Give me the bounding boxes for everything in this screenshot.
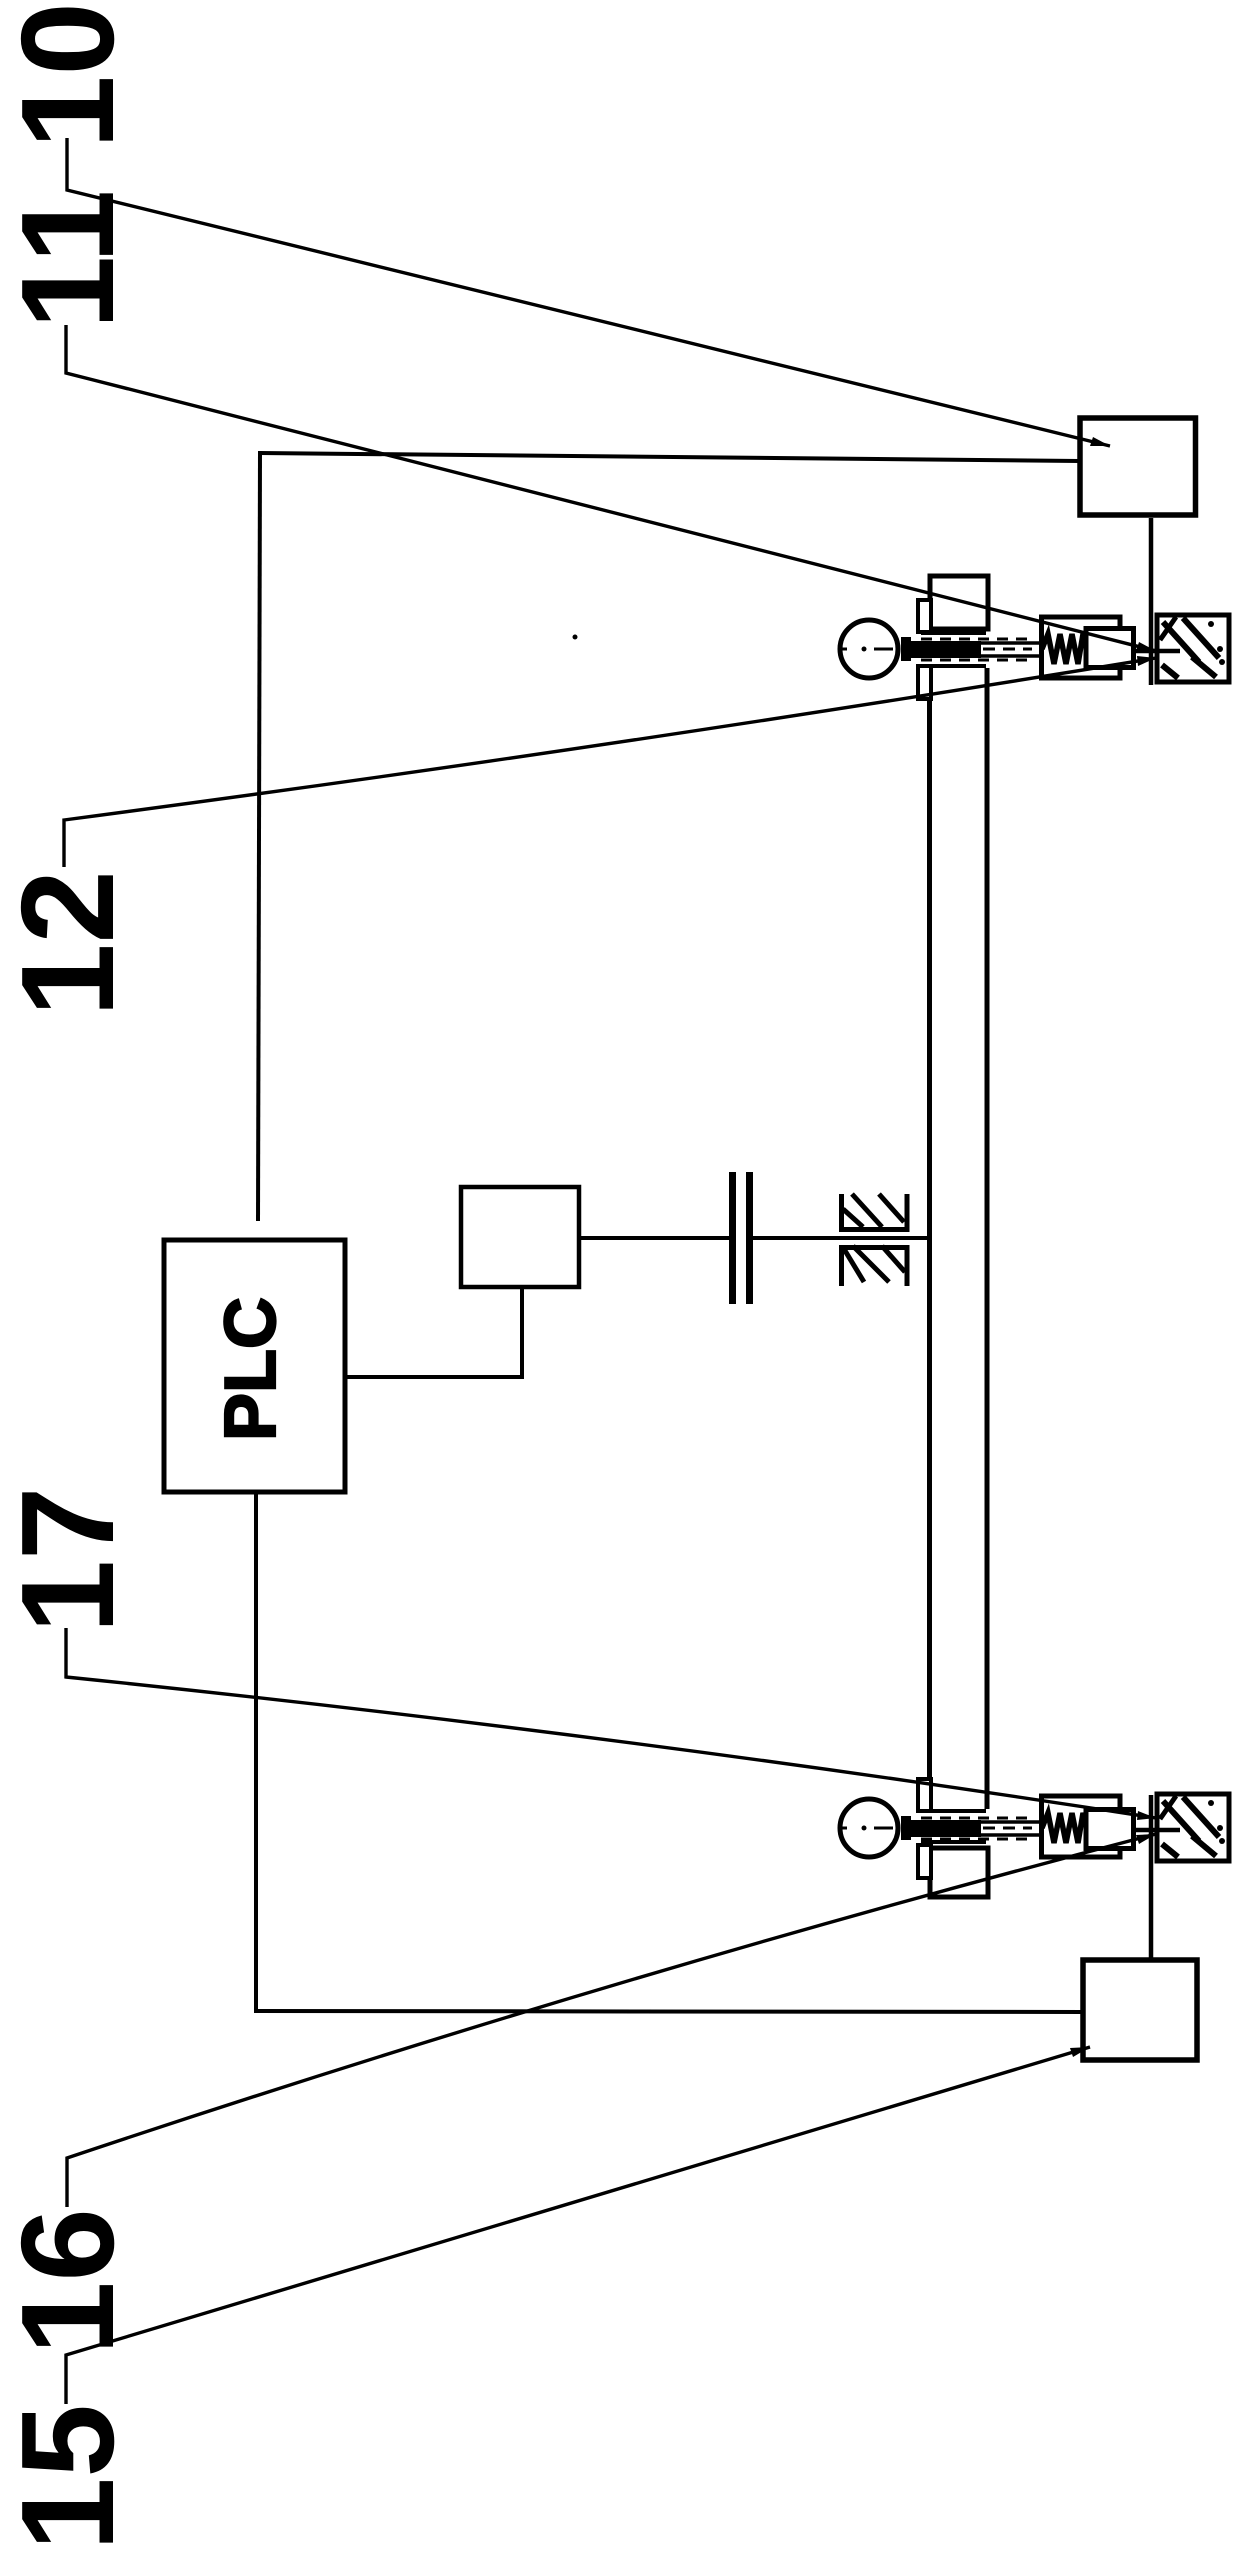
nut housing bottom line top <box>921 664 986 668</box>
plunger rod top <box>1133 649 1180 654</box>
arrowhead 16 <box>1136 1834 1156 1844</box>
svg-text:15: 15 <box>0 2404 141 2551</box>
platform lower cap box <box>930 1848 988 1897</box>
anchor wall hatched block bottom <box>1157 1794 1229 1861</box>
frame top edge <box>260 453 1079 461</box>
spring housing bottom <box>1042 1796 1121 1857</box>
handwheel center mark bottom <box>838 1827 847 1830</box>
frame left edge lower segment <box>254 1494 258 2013</box>
spring top <box>1042 634 1087 664</box>
capacitor sensor plate 1 <box>729 1172 736 1304</box>
guide flange lower plate bottom <box>918 1845 931 1878</box>
plunger rod bottom <box>1133 1828 1180 1833</box>
leader line 17 <box>66 1628 1156 1818</box>
platform right bar <box>985 668 990 1809</box>
svg-text:12: 12 <box>0 870 141 1017</box>
thread root dashed line upper top <box>921 638 1028 641</box>
spring housing top <box>1042 617 1121 678</box>
nut housing top line top <box>921 631 986 635</box>
plunger block bottom <box>1086 1810 1134 1849</box>
arrowhead 15 <box>1070 2047 1090 2057</box>
thread root dashed line lower top <box>921 659 1028 662</box>
guide flange upper plate top <box>918 600 931 632</box>
leader line 10 <box>67 138 1110 446</box>
spring bottom <box>1042 1813 1087 1843</box>
capacitor sensor plate 2 <box>746 1172 753 1304</box>
frame bottom edge <box>254 2011 1082 2012</box>
svg-text:11: 11 <box>0 190 141 330</box>
leader line 15 <box>66 2047 1090 2404</box>
push rod lower line top <box>981 654 1044 657</box>
PLC controller box U1 <box>164 1240 345 1492</box>
svg-text:10: 10 <box>0 2 141 149</box>
arrowhead 12 <box>1137 656 1156 666</box>
leader line 16 <box>67 1834 1156 2207</box>
handwheel center mark top <box>838 648 847 651</box>
arrowhead 10 <box>1090 437 1110 446</box>
guide flange upper plate bottom <box>918 1779 931 1811</box>
platform upper cap box <box>930 576 988 629</box>
platform left bar <box>927 668 932 1809</box>
device box 15 (bottom right) <box>1083 1960 1197 2060</box>
nut housing bottom line bottom <box>921 1809 986 1813</box>
frame left edge upper segment <box>258 451 260 1221</box>
wire PLC to amplifier (horizontal) <box>347 1375 522 1379</box>
svg-text:17: 17 <box>0 1487 141 1634</box>
thread root dashed line lower bottom <box>921 1838 1028 1841</box>
sensor amplifier box <box>461 1187 579 1287</box>
fixed wall lower hatched block <box>839 1245 909 1286</box>
push rod upper line bottom <box>981 1820 1044 1823</box>
svg-text:PLC: PLC <box>211 1297 291 1441</box>
push rod lower line bottom <box>981 1833 1044 1836</box>
push rod dashed centerline top <box>983 648 1032 651</box>
guide flange lower plate top <box>918 666 931 699</box>
wire amplifier to capacitor sensor <box>579 1236 729 1240</box>
screw hub bottom <box>901 1816 911 1840</box>
handwheel ball top <box>840 620 898 678</box>
screw hub top <box>901 637 911 661</box>
arrowhead 17 <box>1137 1811 1156 1820</box>
fixed wall upper hatched block <box>839 1194 909 1232</box>
screw threaded shaft bottom <box>903 1820 981 1837</box>
screw threaded shaft top <box>903 641 981 658</box>
leader line 12 <box>64 658 1156 867</box>
connector rod top (box 10 to clamp) <box>1149 518 1154 685</box>
wire capacitor to platform <box>753 1236 931 1240</box>
leader line 11 <box>66 325 1156 651</box>
arrowhead 11 <box>1136 642 1156 651</box>
push rod dashed centerline bottom <box>983 1827 1032 1830</box>
svg-text:16: 16 <box>0 2208 141 2355</box>
plunger block top <box>1086 629 1134 668</box>
nut housing top line bottom <box>921 1840 986 1844</box>
device box 10 (top right) <box>1080 418 1196 515</box>
wire PLC to amplifier (vertical) <box>520 1289 524 1379</box>
push rod upper line top <box>981 641 1044 644</box>
stray dot <box>573 635 578 640</box>
connector rod bottom (clamp to box 15) <box>1149 1795 1154 1959</box>
anchor wall hatched block top <box>1157 615 1229 682</box>
handwheel ball bottom <box>840 1799 898 1857</box>
thread root dashed line upper bottom <box>921 1817 1028 1820</box>
